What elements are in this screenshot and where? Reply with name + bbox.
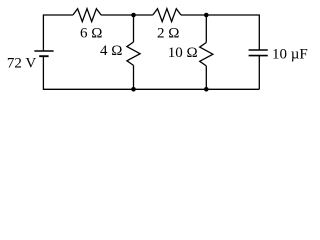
battery V1 long plate (34, 50, 53, 52)
svg-text:4 Ω: 4 Ω (100, 43, 122, 59)
resistor R1 zigzag 6 ohm (73, 9, 101, 22)
junction node bottom-right (204, 87, 209, 92)
svg-text:10 Ω: 10 Ω (168, 45, 198, 61)
svg-text:10 µF: 10 µF (272, 46, 308, 62)
capacitor C1 top plate (249, 49, 268, 51)
resistor R4 zigzag 10 ohm vertical (200, 43, 213, 66)
wire top middle segment (101, 14, 153, 16)
junction node top-left (131, 13, 136, 18)
wire 10-ohm branch bottom lead (205, 66, 207, 89)
svg-text:2 Ω: 2 Ω (157, 26, 179, 42)
wire 4-ohm branch top lead (133, 15, 135, 42)
capacitor C1 bottom plate (249, 55, 268, 57)
wire 4-ohm branch bottom lead (133, 65, 135, 89)
wire right-bottom segment (258, 56, 260, 90)
battery V1 short plate (39, 55, 48, 57)
junction node bottom-left (131, 87, 136, 92)
junction node top-right (204, 13, 209, 18)
svg-text:72 V: 72 V (7, 55, 36, 71)
resistor R2 zigzag 2 ohm (153, 9, 181, 22)
wire top-right segment (181, 15, 259, 50)
wire left-bottom segment (43, 56, 259, 89)
wire 10-ohm branch top lead (205, 15, 207, 43)
resistor R3 zigzag 4 ohm vertical (127, 42, 140, 65)
svg-text:6 Ω: 6 Ω (80, 26, 102, 42)
wire top-left segment (43, 15, 73, 51)
